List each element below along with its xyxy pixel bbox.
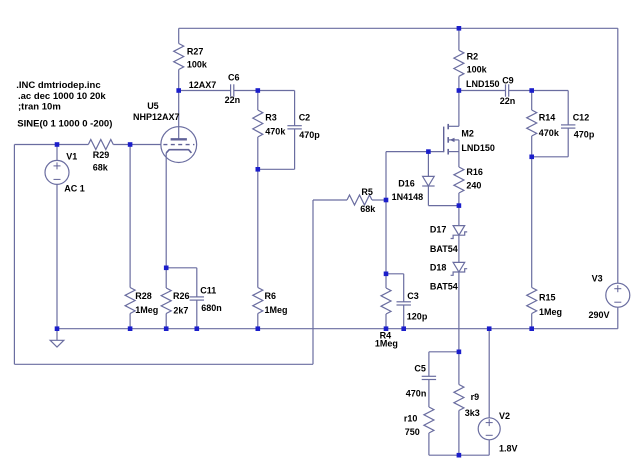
svg-text:3k3: 3k3 [465, 408, 480, 418]
resistor R6 [253, 288, 263, 314]
svg-text:22n: 22n [500, 96, 516, 106]
wire R3 bottom to R6 [257, 169, 259, 287]
node C9 right [529, 88, 534, 93]
node rail V1 [55, 326, 60, 331]
svg-text:100k: 100k [187, 59, 208, 69]
svg-text:M2: M2 [461, 128, 474, 138]
resistor R15 [527, 288, 537, 314]
wire cathode lead [165, 153, 167, 268]
svg-text:BAT54: BAT54 [430, 244, 458, 254]
svg-text:R14: R14 [539, 112, 556, 122]
svg-text:120p: 120p [407, 311, 428, 321]
wire mid column [385, 152, 387, 200]
mosfet M2 source [448, 151, 459, 153]
resistor R27 [178, 28, 180, 43]
svg-text:68k: 68k [93, 163, 109, 173]
svg-text:240: 240 [466, 181, 481, 191]
resistor R3 [257, 91, 259, 111]
resistor R14 [531, 91, 533, 111]
svg-text:AC 1: AC 1 [64, 184, 85, 194]
svg-text:2k7: 2k7 [173, 305, 188, 315]
capacitor C9 [459, 90, 506, 92]
diode D17 [458, 206, 460, 226]
svg-text:1Meg: 1Meg [265, 305, 288, 315]
resistor R16 [458, 152, 460, 167]
wire top B+ rail [179, 27, 618, 29]
triode plate [178, 91, 180, 140]
svg-text:R3: R3 [265, 113, 277, 123]
svg-text:r9: r9 [471, 392, 480, 402]
resistor R26 [161, 288, 171, 314]
node rail R26 [164, 326, 169, 331]
diode D18 [453, 262, 465, 272]
wire left feedback loop [13, 145, 15, 365]
svg-text:SINE(0 1 1000 0 -200): SINE(0 1 1000 0 -200) [17, 119, 112, 130]
svg-text:.INC dmtriodep.inc: .INC dmtriodep.inc [16, 80, 100, 91]
resistor r10 [428, 380, 430, 408]
wire ground rail [57, 328, 618, 330]
node R16 bottom [457, 203, 462, 208]
wire gate row [386, 151, 444, 153]
wire grid lead [130, 144, 161, 146]
node R29 right [128, 142, 133, 147]
svg-text:V1: V1 [66, 152, 77, 162]
svg-text:R28: R28 [135, 291, 152, 301]
wire plate row left [179, 90, 231, 92]
resistor r9 [458, 352, 460, 385]
svg-text:D16: D16 [398, 179, 415, 189]
triode cathode [166, 150, 191, 153]
node V1 top [55, 142, 60, 147]
svg-text:C2: C2 [299, 113, 311, 123]
wire D18 down across rail [458, 272, 460, 352]
svg-text:470n: 470n [406, 389, 427, 399]
capacitor C11 [166, 267, 197, 269]
svg-text:1.8V: 1.8V [499, 444, 518, 454]
svg-text:68k: 68k [360, 204, 376, 214]
capacitor C2 [258, 90, 295, 92]
svg-text:R2: R2 [467, 52, 479, 62]
capacitor C5 [429, 351, 459, 353]
svg-text:680n: 680n [201, 303, 222, 313]
resistor R28 [129, 145, 131, 288]
resistor R5 [347, 195, 372, 205]
voltage source V1 [56, 145, 58, 161]
wire right edge to V3 [617, 28, 619, 283]
ground symbol [56, 329, 58, 341]
node rail V2 [487, 326, 492, 331]
node R3 bottom [256, 167, 261, 172]
wire V3 bottom to ground rail [617, 307, 619, 329]
svg-text:BAT54: BAT54 [430, 281, 458, 291]
svg-text:C5: C5 [414, 364, 426, 374]
resistor R2 [458, 28, 460, 50]
node rail C11 [195, 326, 200, 331]
svg-text:290V: 290V [589, 310, 610, 320]
svg-text:D17: D17 [430, 225, 447, 235]
svg-text:C9: C9 [502, 76, 514, 86]
svg-text:12AX7: 12AX7 [189, 80, 217, 90]
svg-text:470p: 470p [299, 130, 320, 140]
node C6 right [256, 88, 261, 93]
svg-text:V2: V2 [499, 411, 510, 421]
svg-text:R27: R27 [187, 46, 204, 56]
svg-text:1Meg: 1Meg [375, 338, 398, 348]
svg-text:D18: D18 [430, 262, 447, 272]
svg-text:750: 750 [405, 427, 420, 437]
wire input row [14, 144, 88, 146]
svg-text:V3: V3 [592, 274, 603, 284]
mosfet M2 [458, 91, 460, 127]
svg-text:;tran 10m: ;tran 10m [18, 101, 61, 112]
node R4 top [384, 272, 389, 277]
svg-text:C11: C11 [200, 286, 216, 296]
svg-text:1Meg: 1Meg [135, 305, 158, 315]
resistor R29 [88, 140, 113, 150]
node rail R6 [256, 326, 261, 331]
resistor R4 [381, 288, 391, 314]
wire R14 bottom to R15 [531, 157, 533, 288]
voltage source V3 [606, 283, 630, 307]
svg-text:C6: C6 [228, 73, 240, 83]
node rail C3 [401, 326, 406, 331]
svg-text:NHP12AX7: NHP12AX7 [133, 112, 180, 122]
svg-text:.ac dec 1000 10 20k: .ac dec 1000 10 20k [18, 91, 106, 102]
wire D17 to D18 [458, 235, 460, 262]
wire bottom bias row [429, 454, 489, 456]
svg-text:C3: C3 [407, 291, 419, 301]
svg-text:1N4148: 1N4148 [392, 192, 424, 202]
node rail R4 [384, 326, 389, 331]
node top rail R2 [457, 26, 462, 31]
svg-text:100k: 100k [467, 65, 488, 75]
svg-text:r10: r10 [404, 413, 418, 423]
svg-text:R16: R16 [466, 167, 483, 177]
capacitor C6 [230, 84, 232, 96]
svg-text:R6: R6 [265, 291, 277, 301]
node plate [176, 88, 181, 93]
node rail R15 [529, 326, 534, 331]
node C5 r9 junction [457, 350, 462, 355]
svg-text:470k: 470k [539, 128, 560, 138]
node rail R28 [128, 326, 133, 331]
triode grid [163, 144, 194, 146]
svg-text:U5: U5 [147, 101, 159, 111]
mosfet M2 bulk arrow [448, 139, 459, 141]
svg-text:R29: R29 [93, 150, 110, 160]
node M2 drain [457, 88, 462, 93]
svg-text:R5: R5 [361, 187, 373, 197]
svg-text:22n: 22n [225, 95, 241, 105]
capacitor C12 [532, 90, 569, 92]
voltage source V2 [488, 329, 490, 418]
svg-text:R15: R15 [539, 292, 556, 302]
node bottom r9 [457, 453, 462, 458]
node gate D16 [426, 149, 431, 154]
node cathode junction [164, 266, 169, 271]
diode D16 [427, 152, 429, 177]
svg-text:LND150: LND150 [461, 143, 495, 153]
svg-text:R26: R26 [173, 291, 190, 301]
mosfet M2 gate bar [443, 127, 445, 153]
svg-text:1Meg: 1Meg [539, 307, 562, 317]
triode U5 [161, 127, 197, 163]
svg-text:LND150: LND150 [466, 79, 500, 89]
svg-text:C12: C12 [573, 112, 590, 122]
capacitor C3 [386, 273, 404, 275]
node R14 bottom [529, 155, 534, 160]
node R5 right [384, 198, 389, 203]
svg-text:470k: 470k [265, 127, 286, 137]
svg-text:470p: 470p [574, 129, 595, 139]
